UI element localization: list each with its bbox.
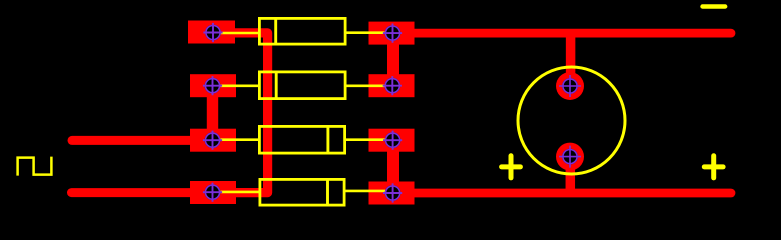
diode D4 cathode band [326, 178, 329, 207]
wire: C-shaped trace joining D1 left pad and D4 left pad (net AC1) [213, 33, 268, 193]
diode D3 right lead [345, 138, 393, 141]
label: minus symbol (DC- output) [703, 4, 726, 8]
wire: AC input trace to D3 left pad (net AC2) [72, 136, 213, 145]
diode D3 left lead [213, 138, 259, 141]
hole: D3 pin 2 [383, 131, 402, 150]
diode D3 body outline [259, 126, 344, 153]
AC source square-wave symbol [18, 157, 52, 176]
pad: D4 right (pin 2) [369, 182, 415, 205]
diode D1 right lead [346, 31, 393, 34]
hole: D4 pin 2 [383, 183, 402, 202]
wire: stub from DC- trace to capacitor C1 positive pad [566, 33, 576, 86]
capacitor C1 body outline (circle) [518, 67, 625, 174]
hole: D1 pin 2 [383, 23, 402, 42]
hole: D2 pin 1 [203, 76, 222, 95]
wire: stub joining D2 left pad and D3 left pad (net AC2) [207, 86, 218, 141]
diode D2 body outline [259, 72, 345, 99]
label: plus symbol near capacitor [502, 156, 521, 178]
diode D4 body outline [260, 179, 344, 205]
diode D1 body outline [259, 18, 345, 44]
wire: DC- output trace (top) [393, 29, 731, 38]
hole: D3 pin 1 [203, 131, 222, 150]
pad: D1 right (pin 2) [369, 22, 415, 45]
label: plus symbol (DC+ output) [704, 156, 723, 178]
diode D2 left lead [213, 85, 259, 88]
hole: C1 positive pin [559, 75, 581, 97]
diode D3 cathode band [326, 125, 329, 155]
wire: DC+ output trace (bottom) [393, 189, 731, 198]
pad: D2 right (pin 2) [369, 74, 415, 97]
wire: stub joining D3 right pad and D4 right pad (net DC+) [387, 140, 399, 193]
wire: stub joining D1 right pad and D2 right pad (net DC-) [387, 33, 399, 86]
hole: C1 negative pin [559, 146, 581, 168]
pad: D1 left (pin 1) [188, 21, 235, 44]
pad: D3 right (pin 2) [369, 129, 415, 152]
pad: capacitor C1 bottom (round) [556, 143, 584, 171]
diode D4 right lead [345, 190, 393, 193]
hole: D4 pin 1 [203, 183, 222, 202]
hole: D1 pin 1 [203, 23, 222, 42]
wire: AC input trace to D4 left pad (net AC1) [72, 188, 214, 197]
wire: stub from capacitor C1 negative pad to DC+ trace [566, 157, 576, 194]
pad: D3 left (pin 1) [190, 129, 236, 152]
pad: D2 left (pin 1) [190, 74, 236, 97]
diode D1 cathode band [274, 17, 277, 46]
pad: D4 left (pin 1) [190, 181, 236, 204]
diode D1 left lead [213, 32, 259, 35]
diode D4 left lead [213, 191, 260, 194]
pad: capacitor C1 top (round) [556, 72, 584, 100]
hole: D2 pin 2 [383, 76, 402, 95]
diode D2 right lead [346, 85, 393, 88]
diode D2 cathode band [275, 71, 278, 101]
